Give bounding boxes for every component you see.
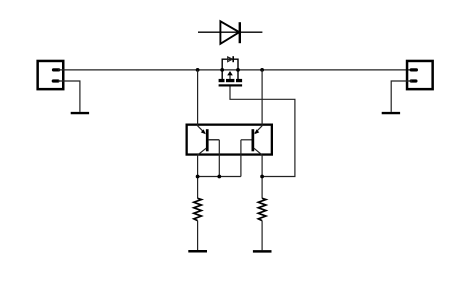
diode D1 (198, 21, 262, 44)
collector lead down (254, 148, 262, 155)
connector J2 (407, 61, 433, 89)
node B (main / Q3 drain) (220, 68, 224, 72)
ground (J1) (71, 112, 89, 114)
wire collector from node D (261, 70, 263, 126)
node C (main / Q3 source) (236, 68, 240, 72)
node E (Q2 collector / gate wire / R2) (260, 175, 264, 179)
gate bar (219, 84, 243, 86)
body arrow (227, 71, 233, 75)
base bar (206, 129, 209, 151)
ground (R2) (253, 250, 272, 253)
emitter arrowhead (201, 129, 206, 134)
node D (main / Q2 collector) (260, 68, 264, 72)
mosfet Q3 (219, 56, 243, 86)
source stub (237, 70, 239, 79)
drain stub (221, 70, 223, 79)
resistor R2 (258, 198, 266, 220)
collector lead down (198, 148, 207, 155)
node F (Q1 collector / base rail / R1) (196, 175, 200, 179)
node G (base rail junction) (217, 175, 221, 179)
body diode (228, 57, 233, 62)
wire collector from node A (197, 70, 199, 126)
wire R2 to ground (261, 221, 263, 251)
base lead (241, 139, 252, 141)
wire base rail (198, 176, 241, 178)
wire Q3 gate to node E (230, 87, 295, 177)
wire J2 pin2 to ground (391, 81, 412, 112)
emitter arrowhead (254, 129, 259, 134)
transistor Q2 (241, 70, 262, 199)
connector J1 (38, 61, 64, 89)
base lead (209, 139, 220, 141)
ground (J2) (382, 112, 400, 114)
transistor array box U1 (187, 125, 272, 155)
wire J1 pin2 to ground (58, 81, 80, 112)
node A (main / Q1 collector) (196, 68, 200, 72)
base bar (252, 129, 255, 151)
wire R1 to ground (197, 221, 199, 250)
ground (R1) (188, 250, 207, 253)
wire main net J1 pin1 to J2 pin1 (58, 69, 412, 71)
transistor Q1 (198, 70, 220, 199)
resistor R1 (194, 198, 202, 220)
body diode loop wire (222, 59, 238, 70)
channel bars (219, 79, 225, 82)
